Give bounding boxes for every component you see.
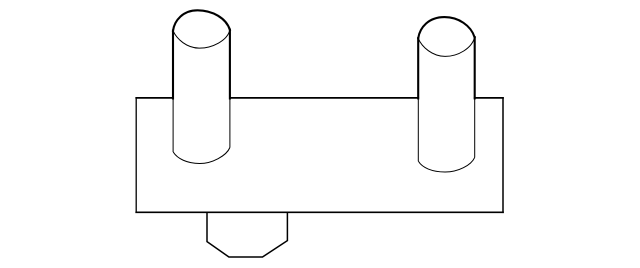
right stud rounded bottom (418, 157, 474, 172)
right stud left side (inside plate) (417, 98, 419, 161)
bottom tab (hex boss) (207, 212, 287, 257)
plate top edge left segment (136, 97, 173, 99)
right stud: bold silhouette (418, 17, 475, 98)
right stud left side (above plate) (417, 38, 419, 98)
left stud right side (above plate) (229, 30, 231, 99)
left stud: bold silhouette (top ellipse arc + outer sides) (173, 10, 230, 98)
right stud right side (above plate) (474, 37, 476, 98)
left stud top face upper arc (173, 10, 230, 30)
plate bottom edge (136, 211, 503, 213)
left stud top face lower arc (173, 30, 230, 48)
left stud rounded bottom (173, 148, 230, 164)
plate top edge middle segment (230, 97, 418, 99)
right stud top face lower arc (418, 37, 474, 56)
left stud right side (inside plate) (229, 98, 231, 148)
plate left edge (135, 98, 137, 212)
right stud: thin lines (418, 37, 475, 172)
left stud left side (inside plate) (172, 98, 174, 152)
mounting plate outline (top edge hidden behind studs) (136, 98, 503, 212)
right stud right side (inside plate) (474, 98, 476, 157)
plate top edge right segment (475, 97, 503, 99)
plate right edge (502, 98, 504, 212)
left stud left side (above plate) (172, 31, 174, 99)
right stud top face upper arc (418, 17, 474, 38)
left stud: thin lines (173, 30, 230, 164)
